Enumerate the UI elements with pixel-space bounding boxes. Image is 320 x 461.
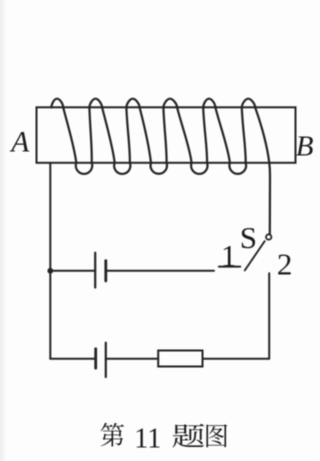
wire: middle branch right (battery G1 to switch contact 1) [106,270,214,272]
wire: switch contact 2 vertical segment [268,273,270,359]
switch S pivot circle [266,234,271,239]
svg-text:S: S [240,220,257,255]
wire: resistor R to bottom-right corner [203,358,270,360]
wire: battery G2 to resistor R [106,358,158,360]
resistor R box [158,351,202,367]
inductor L core (solenoid body A-B) [37,107,296,163]
caption: 图 [206,424,227,447]
svg-text:11: 11 [134,424,161,455]
node: junction of middle branch on left wire [47,268,53,274]
battery G2 positive plate (long) [105,343,107,377]
caption: 题 [173,424,205,448]
wire: bottom branch left (corner to battery G2) [50,358,95,360]
battery G1 negative plate (short) [104,261,107,281]
svg-text:1: 1 [221,238,237,273]
svg-text:2: 2 [277,247,293,282]
inductor L winding (continuous wire, 6 turns, ends in B lead) [51,99,270,235]
caption: 第 [101,423,124,447]
switch S contact 1 terminal line [219,266,240,268]
battery G1 positive plate (long) [94,253,96,288]
wire: middle branch left (junction to battery G1) [50,270,95,272]
wire: A lead, left vertical from coil to bottom-left corner [49,164,51,359]
svg-text:B: B [296,130,314,162]
scan edge shading left [0,0,3,461]
battery G2 negative plate (short) [94,349,97,368]
svg-text:A: A [9,127,30,159]
switch S blade [245,241,265,270]
